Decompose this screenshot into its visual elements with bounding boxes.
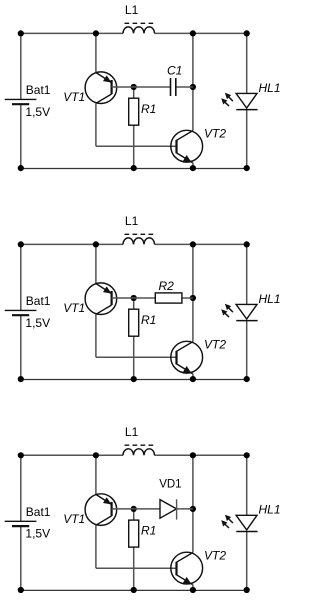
svg-text:R2: R2 bbox=[159, 279, 175, 293]
svg-text:C1: C1 bbox=[167, 63, 182, 77]
svg-text:VD1: VD1 bbox=[159, 478, 181, 490]
